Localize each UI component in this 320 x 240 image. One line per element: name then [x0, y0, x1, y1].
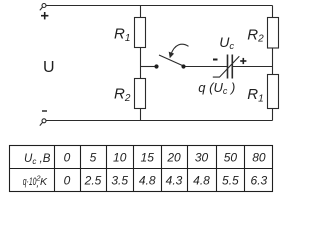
svg-text:q (Uc ): q (Uc ): [198, 80, 235, 96]
svg-text:R2: R2: [247, 26, 264, 44]
svg-text:50: 50: [224, 151, 238, 165]
svg-text:10: 10: [113, 151, 127, 165]
svg-text:R2: R2: [114, 86, 131, 104]
svg-text:K: K: [40, 176, 48, 188]
svg-text:0: 0: [64, 174, 71, 188]
svg-text:80: 80: [252, 151, 266, 165]
svg-text:q·10: q·10: [23, 176, 37, 188]
svg-text:15: 15: [141, 151, 155, 165]
svg-text:Uc ,B: Uc ,B: [24, 153, 51, 166]
svg-text:4.8: 4.8: [193, 174, 210, 188]
svg-text:U: U: [43, 59, 55, 76]
svg-text:R1: R1: [114, 26, 130, 44]
svg-text:30: 30: [195, 151, 209, 165]
svg-text:Uc: Uc: [219, 34, 234, 52]
svg-text:2.5: 2.5: [84, 174, 102, 188]
svg-text:6.3: 6.3: [251, 174, 268, 188]
svg-text:3.5: 3.5: [111, 174, 128, 188]
svg-text:4.8: 4.8: [139, 174, 156, 188]
svg-text:5: 5: [90, 151, 97, 165]
svg-text:4.3: 4.3: [166, 174, 183, 188]
svg-text:0: 0: [64, 151, 71, 165]
svg-text:5.5: 5.5: [222, 174, 239, 188]
svg-text:20: 20: [166, 151, 181, 165]
svg-text:R1: R1: [247, 86, 263, 104]
svg-text:,: ,: [36, 178, 39, 189]
